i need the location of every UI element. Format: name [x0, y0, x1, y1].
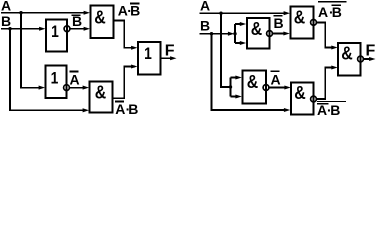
AND gate AND2 [90, 81, 113, 112]
wire AND1 output to OR top input [114, 21, 138, 50]
wire B branch (junction to AND2 bottom input) [10, 29, 89, 113]
svg-text:B: B [274, 15, 284, 31]
NAND gate U5 (A NAND B-bar) [291, 6, 317, 38]
node A label (right) [200, 0, 210, 13]
inverter U2 (NOT A) [46, 66, 70, 99]
wire AND2 output to OR bottom input [113, 64, 138, 98]
svg-text:&: & [94, 7, 106, 28]
wire A (right, to NAND3 top input) [200, 11, 291, 15]
svg-text:1: 1 [51, 69, 59, 88]
svg-text:1: 1 [51, 22, 59, 41]
node A-bar label (right) [270, 71, 280, 87]
svg-text:&: & [251, 18, 263, 39]
node B label (right) [200, 18, 210, 34]
svg-text:A: A [118, 2, 128, 18]
inverter U1 (NOT B) [46, 20, 70, 52]
wire U1 output to AND1 bottom input [70, 27, 90, 31]
wire A (input A to AND1 top input) [1, 11, 90, 15]
wire U2 output to AND2 top input [70, 86, 90, 90]
node B-bar label [72, 13, 83, 29]
svg-text:&: & [247, 71, 259, 92]
node A-bar·B label [115, 101, 138, 117]
node A label [1, 0, 11, 13]
wire A split into NAND2 both inputs [231, 75, 242, 98]
wire A branch (right, junction to NAND2 input split) [221, 13, 232, 89]
svg-text:A: A [115, 101, 125, 117]
node NOT(A·B-bar) label [318, 2, 347, 20]
node F label [165, 43, 175, 60]
wire B branch (right, junction to NAND4 bottom input) [212, 34, 291, 112]
wire OR1 output F [161, 56, 177, 60]
svg-text:B: B [330, 102, 340, 117]
node B label [1, 13, 11, 29]
wire U7 output F [364, 57, 376, 61]
junction on wire A [19, 11, 22, 14]
wire U4 output to NAND4 top input [269, 85, 291, 89]
node A-bar label [69, 71, 79, 87]
junction on wire A (right) [219, 12, 222, 15]
svg-text:F: F [366, 43, 376, 60]
NAND gate U7 (output NAND) [338, 43, 363, 76]
svg-text:A: A [200, 0, 210, 13]
NAND gate U4 (A inverter) [243, 71, 269, 104]
svg-text:&: & [95, 81, 107, 102]
wire B (input B to inverter U1 input) [1, 27, 46, 31]
wire A branch (junction to inverter U2 input) [21, 13, 45, 90]
OR gate OR1 [138, 42, 161, 75]
svg-text:A: A [1, 0, 11, 13]
wire U3 output to NAND3 bottom input [273, 31, 290, 35]
node B-bar label (right) [274, 15, 284, 31]
node F label (right) [366, 43, 376, 60]
junction on wire B [8, 27, 11, 30]
svg-text:A: A [318, 4, 328, 20]
node NOT(A-bar·B) label [317, 102, 346, 119]
svg-text:B: B [200, 18, 210, 34]
AND gate AND1 [91, 6, 114, 39]
svg-text:B: B [128, 101, 138, 117]
wire U5 output to NAND5 top input [317, 22, 338, 49]
svg-text:&: & [294, 82, 306, 103]
svg-text:B: B [130, 2, 140, 18]
svg-text:1: 1 [144, 44, 152, 63]
svg-text:A: A [271, 71, 281, 87]
wire B split into NAND1 both inputs [235, 22, 246, 45]
wire U6 output to NAND5 bottom input [317, 65, 338, 99]
NAND gate U3 (B inverter) [247, 18, 272, 49]
node A·B-bar label [118, 2, 141, 18]
svg-text:&: & [294, 6, 306, 27]
svg-text:F: F [165, 43, 175, 60]
NAND gate U6 (A-bar NAND B) [291, 82, 316, 114]
svg-text:B: B [1, 13, 11, 29]
svg-text:A: A [70, 71, 80, 87]
junction on wire B (right) [210, 32, 213, 35]
svg-text:B: B [332, 4, 342, 20]
wire B (right, to NAND1 input split) [200, 32, 237, 36]
svg-text:&: & [341, 43, 353, 64]
